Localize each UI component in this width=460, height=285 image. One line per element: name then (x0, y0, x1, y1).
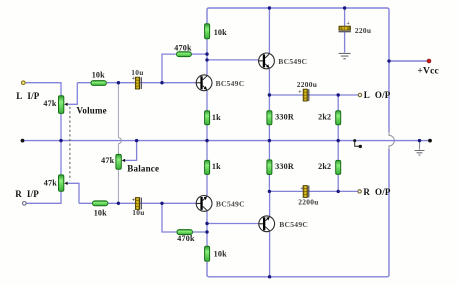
node ground rail left end (21, 139, 25, 143)
wire balance link to pot top (117, 144, 119, 155)
transistor Q2 BC549C (196, 196, 212, 212)
svg-text:Balance: Balance (127, 164, 159, 174)
svg-text:R I/P: R I/P (15, 189, 39, 199)
wire R 470k feedback left (162, 203, 177, 232)
wire Q3 emitter to R output line (269, 191, 271, 216)
resistor 2k2 R (336, 160, 341, 174)
resistor 2k2 L (336, 111, 341, 125)
svg-text:BC549C: BC549C (278, 57, 307, 66)
wire Q4 base (207, 59, 259, 61)
wire R volume pot top to ground (60, 141, 62, 175)
svg-text:10k: 10k (92, 70, 105, 79)
svg-text:1k: 1k (212, 162, 221, 171)
potentiometer VR3 47k balance (116, 154, 125, 169)
svg-text:330R: 330R (275, 162, 294, 171)
svg-text:1k: 1k (212, 113, 221, 122)
svg-text:10k: 10k (94, 208, 107, 217)
svg-text:2k2: 2k2 (318, 112, 331, 121)
capacitor 2200u R (300, 186, 308, 198)
wire Q1 emitter to 1k (206, 90, 208, 110)
wire L volume wiper (67, 83, 78, 105)
svg-text:+: + (298, 89, 301, 95)
terminal R output (358, 190, 361, 193)
wire R input (26, 191, 61, 203)
wire Q4 collector to top rail (268, 8, 270, 54)
wire 220u bottom lead (344, 32, 346, 53)
node ground rail right end (428, 139, 432, 143)
wire L base line (77, 82, 196, 84)
svg-text:2200u: 2200u (297, 80, 317, 89)
transistor Q3 BC549C R output (259, 216, 275, 232)
svg-text:BC549C: BC549C (279, 220, 308, 229)
svg-text:BC549C: BC549C (216, 200, 245, 209)
wire R output line (269, 190, 357, 192)
svg-text:220u: 220u (355, 26, 371, 35)
svg-text:+: + (300, 186, 303, 192)
resistor 1k L (205, 111, 210, 125)
wire Vcc right vertical lower (387, 149, 389, 277)
resistor 470k L (177, 52, 192, 57)
resistor 10k collector L (205, 24, 210, 39)
capacitor 10u R (132, 197, 142, 209)
terminal +Vcc (427, 59, 431, 63)
capacitor 2200u L (298, 89, 309, 101)
wire L output line (269, 94, 358, 96)
svg-text:+: + (132, 76, 135, 82)
terminal R input (23, 202, 27, 206)
wire 2k2 L leads (337, 95, 339, 141)
wire L 470k feedback left (162, 54, 177, 83)
svg-text:47k: 47k (101, 156, 114, 165)
ground stub right (419, 141, 421, 150)
svg-text:Volume: Volume (77, 106, 107, 116)
wire R base line (79, 202, 196, 204)
ground symbol under 220u (339, 53, 351, 58)
wire R volume wiper (67, 183, 80, 203)
wire top Vcc rail (207, 8, 389, 59)
svg-text:2200u: 2200u (298, 197, 318, 206)
svg-text:L O/P: L O/P (364, 90, 391, 100)
svg-text:BC549C: BC549C (216, 79, 245, 88)
wire L volume pot bottom to ground (60, 113, 62, 140)
capacitor 10u L (132, 76, 142, 89)
wire 2k2 R leads (337, 141, 339, 192)
resistor 10k L series (91, 81, 106, 86)
resistor 10k collector R (205, 246, 210, 261)
svg-text:330R: 330R (275, 112, 294, 121)
svg-text:470k: 470k (174, 43, 192, 52)
wire 1k L to ground to 1k R (206, 125, 208, 161)
wire 330R L leads (268, 95, 270, 141)
wire 220u top lead (344, 8, 346, 26)
wire balance pot bottom link (117, 169, 119, 203)
wire 330R R leads (268, 141, 270, 192)
wire main column Q1 collector (206, 39, 208, 76)
svg-text:+: + (132, 197, 135, 203)
wire Q4 emitter to L output line (268, 68, 270, 95)
resistor 1k R (205, 160, 210, 174)
svg-text:10k: 10k (214, 249, 227, 258)
wire 1k R to Q2 emitter (206, 175, 208, 196)
wire balance link upper (117, 83, 119, 138)
wire +Vcc lead (389, 60, 427, 62)
wire Vcc right vertical upper (388, 61, 390, 132)
capacitor 220u (339, 21, 351, 32)
terminal L input (22, 81, 26, 85)
svg-text:10u: 10u (132, 208, 144, 217)
wire L input (25, 83, 61, 96)
svg-text:R O/P: R O/P (363, 187, 391, 197)
svg-text:2k2: 2k2 (318, 162, 331, 171)
svg-text:L I/P: L I/P (16, 91, 40, 101)
ground symbol right end of ground rail (415, 151, 425, 156)
node test stub on ground rail (353, 139, 362, 148)
terminal L output (358, 93, 361, 96)
svg-text:+Vcc: +Vcc (417, 67, 439, 77)
wire Q3 base (207, 223, 259, 225)
gang dashed link volume pots (69, 107, 71, 181)
resistor 10k R series (93, 201, 108, 206)
resistor 330R L (267, 111, 272, 125)
wire Q3 collector to bottom rail (269, 232, 271, 277)
wire hopover balance link crosses ground rail (118, 138, 121, 144)
svg-text:470k: 470k (177, 234, 195, 243)
svg-text:10k: 10k (214, 28, 227, 37)
wire R 470k feedback right (192, 231, 207, 233)
transistor Q1 BC549C (196, 75, 212, 91)
resistor 330R R (267, 160, 272, 175)
svg-text:10u: 10u (131, 68, 143, 77)
wire ground rail (23, 140, 431, 142)
svg-text:47k: 47k (44, 178, 57, 187)
wire bottom Vcc rail (207, 262, 387, 277)
potentiometer VR2 47k R volume (59, 175, 68, 191)
potentiometer VR1 47k L volume (59, 96, 68, 114)
transistor Q4 BC549C L output (259, 53, 275, 69)
wire balance wiper to ground (124, 141, 137, 161)
wire Q2 collector to 10k R (206, 211, 208, 246)
resistor 470k R (177, 230, 192, 235)
svg-text:+: + (347, 21, 350, 27)
wire L 470k feedback right (191, 53, 207, 55)
svg-text:47k: 47k (43, 99, 56, 108)
wire hopover Vcc vertical crosses ground rail (389, 132, 394, 150)
